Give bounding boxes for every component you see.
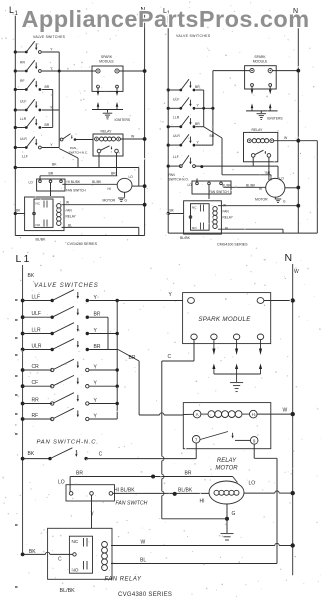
svg-text:BR: BR [195, 122, 200, 126]
svg-text:SWITCH-N.O.: SWITCH-N.O. [169, 177, 189, 181]
svg-text:MOTOR: MOTOR [255, 198, 268, 202]
svg-text:MOTOR: MOTOR [103, 199, 116, 203]
svg-text:LLF: LLF [173, 155, 179, 159]
svg-text:RELAY: RELAY [66, 215, 77, 219]
svg-text:FAN: FAN [66, 209, 73, 213]
svg-text:BK: BK [16, 209, 21, 213]
svg-text:BK: BK [28, 273, 35, 279]
svg-text:LLR: LLR [20, 117, 27, 121]
svg-text:BL/BK: BL/BK [180, 236, 191, 240]
svg-text:BR: BR [49, 171, 54, 175]
svg-text:BR: BR [185, 471, 192, 477]
svg-text:H: H [252, 412, 255, 417]
svg-text:7: 7 [195, 437, 198, 442]
svg-text:BR: BR [45, 123, 50, 127]
svg-text:RELAY: RELAY [217, 458, 237, 464]
svg-text:BL/BK: BL/BK [178, 488, 193, 494]
svg-text:VALVE SWITCHES: VALVE SWITCHES [176, 34, 211, 38]
svg-text:Y: Y [169, 292, 173, 298]
svg-text:W: W [283, 408, 288, 414]
svg-text:LO: LO [280, 177, 285, 181]
svg-text:BL: BL [225, 227, 229, 231]
svg-text:BR: BR [45, 85, 50, 89]
svg-text:VALVE SWITCHES: VALVE SWITCHES [34, 283, 99, 289]
svg-text:BR: BR [111, 171, 116, 175]
svg-text:W: W [131, 135, 135, 139]
svg-text:BK: BK [28, 451, 35, 457]
svg-text:W: W [284, 136, 288, 140]
svg-text:NO: NO [192, 226, 197, 230]
svg-text:W: W [294, 269, 299, 275]
svg-text:W: W [141, 540, 146, 546]
svg-text:W: W [66, 201, 69, 205]
svg-text:LLR: LLR [32, 328, 42, 334]
svg-text:NC: NC [36, 202, 41, 206]
svg-text:BL: BL [140, 558, 146, 564]
svg-text:LO: LO [249, 481, 256, 487]
svg-text:IGNITERS: IGNITERS [115, 118, 131, 122]
svg-text:C: C [168, 354, 172, 360]
svg-text:FAN: FAN [223, 210, 230, 214]
svg-text:BL/BK: BL/BK [222, 183, 232, 187]
svg-text:RR: RR [32, 398, 40, 404]
svg-text:A: A [196, 412, 199, 417]
svg-text:ULR: ULR [173, 134, 180, 138]
svg-text:ULR: ULR [20, 137, 27, 141]
svg-text:RELAY: RELAY [101, 130, 113, 134]
svg-text:BL/BK: BL/BK [36, 238, 47, 242]
svg-text:BL: BL [68, 224, 72, 228]
svg-text:LO: LO [188, 183, 193, 187]
svg-text:N: N [285, 252, 293, 264]
svg-text:HI: HI [108, 187, 111, 191]
svg-text:MOTOR: MOTOR [215, 466, 238, 472]
svg-text:HI BL/BK: HI BL/BK [114, 488, 135, 494]
svg-text:G: G [283, 200, 286, 204]
svg-text:LO: LO [58, 480, 65, 486]
svg-text:BR: BR [129, 355, 136, 361]
svg-text:NC: NC [72, 539, 79, 544]
svg-text:G: G [232, 511, 236, 517]
svg-text:LLF: LLF [22, 155, 28, 159]
svg-text:BL/BK: BL/BK [246, 183, 256, 187]
svg-text:Y: Y [197, 104, 200, 108]
svg-text:RELAY: RELAY [252, 128, 264, 132]
svg-text:RR: RR [20, 61, 25, 65]
svg-text:FAN SWITCH: FAN SWITCH [209, 190, 229, 194]
svg-text:FAN SWITCH: FAN SWITCH [66, 189, 86, 193]
svg-text:Y: Y [50, 48, 53, 52]
svg-text:1: 1 [24, 253, 30, 265]
svg-text:SWITCH-N.C.: SWITCH-N.C. [69, 150, 89, 154]
svg-text:Y: Y [50, 143, 53, 147]
svg-text:CR: CR [32, 364, 40, 370]
svg-text:L: L [16, 253, 22, 265]
svg-text:FAN SWITCH: FAN SWITCH [116, 501, 148, 507]
svg-text:LLR: LLR [173, 116, 180, 120]
svg-text:MODULE: MODULE [253, 60, 268, 64]
svg-text:BK: BK [170, 209, 175, 213]
svg-text:Y: Y [197, 140, 200, 144]
svg-text:ULF: ULF [32, 311, 41, 317]
svg-text:CVG4280 SERIES: CVG4280 SERIES [67, 242, 98, 246]
svg-text:NO: NO [36, 223, 41, 227]
svg-text:RF: RF [20, 79, 25, 83]
svg-text:C: C [99, 452, 103, 458]
svg-text:BR: BR [210, 134, 215, 138]
svg-text:PAN SWITCH-N.C.: PAN SWITCH-N.C. [37, 440, 99, 446]
svg-text:BK: BK [52, 163, 57, 167]
svg-text:LO: LO [29, 181, 34, 185]
svg-text:9: 9 [253, 438, 256, 443]
svg-text:HI: HI [200, 499, 205, 505]
svg-text:NC: NC [192, 206, 197, 210]
svg-text:SPARK MODULE: SPARK MODULE [198, 316, 251, 323]
svg-text:VALVE SWITCHES: VALVE SWITCHES [33, 35, 66, 39]
svg-text:MODULE: MODULE [99, 60, 114, 64]
svg-text:BL/BK: BL/BK [60, 588, 76, 594]
svg-text:L: L [9, 5, 14, 15]
svg-text:SPARK: SPARK [101, 55, 113, 59]
svg-text:IGNITERS: IGNITERS [267, 117, 283, 121]
svg-text:ULF: ULF [20, 100, 26, 104]
svg-text:CF: CF [32, 380, 39, 386]
svg-text:G: G [125, 199, 128, 203]
svg-text:AppliancePartsPros.com: AppliancePartsPros.com [22, 6, 310, 32]
svg-text:LO: LO [129, 175, 134, 179]
svg-text:LLF: LLF [32, 295, 41, 301]
svg-text:BL/BK: BL/BK [92, 180, 102, 184]
svg-text:FAN RELAY: FAN RELAY [105, 577, 142, 583]
svg-text:CMG4100 SERIES: CMG4100 SERIES [217, 243, 248, 247]
svg-text:HI BL/BK: HI BL/BK [67, 180, 81, 184]
svg-text:ULR: ULR [32, 344, 42, 350]
svg-text:BR: BR [76, 471, 83, 477]
